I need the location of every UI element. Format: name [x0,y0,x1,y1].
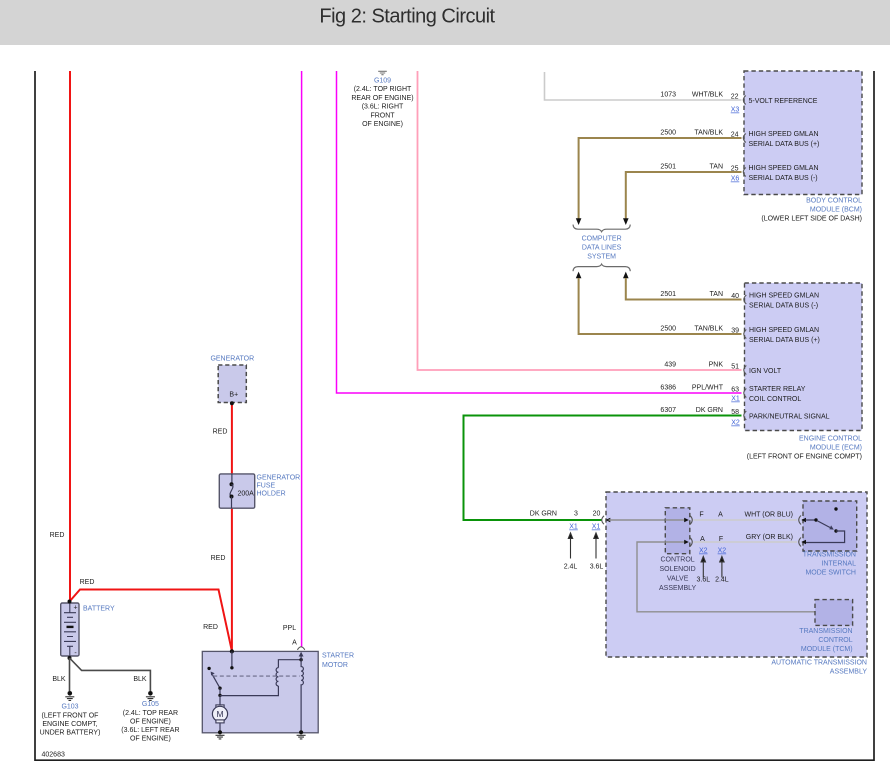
svg-text:GENERATOR: GENERATOR [210,356,254,363]
wire gray TCM riser [637,542,815,612]
svg-text:24: 24 [731,132,739,139]
svg-text:(3.6L: LEFT REAR: (3.6L: LEFT REAR [121,727,179,734]
ground G109 [351,71,413,128]
svg-text:200A: 200A [238,491,255,498]
svg-text:AUTOMATIC TRANSMISSION: AUTOMATIC TRANSMISSION [771,660,867,667]
wire BLK to G103 [69,658,71,691]
svg-text:BODY CONTROL: BODY CONTROL [806,198,862,205]
svg-text:B+: B+ [229,392,238,399]
pin 58 ECM [731,409,829,427]
svg-text:SYSTEM: SYSTEM [587,254,616,261]
svg-text:OF ENGINE): OF ENGINE) [130,735,171,742]
arrow up to A terminal [300,656,302,660]
svg-text:ASSEMBLY: ASSEMBLY [830,669,868,676]
svg-text:G105: G105 [142,701,159,708]
wire gray X1 to solenoid [609,519,666,521]
ground G105 [121,691,179,742]
generator box [210,356,254,403]
wire starter contact stub [231,651,233,667]
svg-text:58: 58 [731,409,739,416]
svg-text:TAN: TAN [710,291,723,298]
wire junction to pull-in coil [220,686,278,696]
svg-text:X2: X2 [731,420,740,427]
ground starter motor left [216,735,225,739]
svg-text:PNK: PNK [709,362,724,369]
svg-text:2.4L: 2.4L [564,564,578,571]
svg-text:INTERNAL: INTERNAL [821,561,856,568]
connector mode switch lower [799,538,806,547]
wire TAN/BLK 2500 lower [579,278,742,334]
svg-text:3.6L: 3.6L [590,564,604,571]
node mode switch common [814,518,817,521]
ground starter solenoid right [297,735,306,739]
svg-text:MODE SWITCH: MODE SWITCH [805,570,856,577]
svg-text:COIL CONTROL: COIL CONTROL [749,396,801,403]
node switch pivot [218,687,221,690]
node starter motor ground [218,730,222,734]
svg-text:(LOWER LEFT SIDE OF DASH): (LOWER LEFT SIDE OF DASH) [761,216,862,223]
svg-text:X1: X1 [731,396,740,403]
svg-text:BLK: BLK [133,676,147,683]
arrow up 2500 lower [576,272,582,279]
arrow down 2501 [623,218,629,225]
svg-text:HIGH SPEED GMLAN: HIGH SPEED GMLAN [749,327,819,334]
module BCM box [744,71,862,223]
wire RED generator to fuse [231,404,233,475]
svg-text:G109: G109 [374,78,391,85]
svg-text:PARK/NEUTRAL SIGNAL: PARK/NEUTRAL SIGNAL [749,414,830,421]
wire TAN/BLK 2500 upper [579,138,742,219]
svg-text:SERIAL DATA BUS (-): SERIAL DATA BUS (-) [749,175,818,182]
node battery positive [68,600,72,604]
module ECM box [745,283,863,461]
svg-text:FRONT: FRONT [370,112,395,119]
wire GRY (OR BLK) [694,541,798,543]
node generator B+ terminal [230,401,234,405]
svg-text:F: F [699,512,703,519]
svg-text:2501: 2501 [660,164,676,171]
svg-text:HIGH SPEED GMLAN: HIGH SPEED GMLAN [749,165,819,172]
wire WHT/BLK 1073 [545,72,742,100]
svg-text:3: 3 [574,511,578,518]
svg-text:GRY (OR BLK): GRY (OR BLK) [746,534,793,541]
wire pivot to lower node [219,688,221,695]
svg-text:1073: 1073 [660,92,676,99]
svg-text:39: 39 [731,328,739,335]
node mode switch unused [834,507,837,510]
battery [61,603,115,657]
svg-text:+: + [73,605,77,612]
svg-text:5-VOLT REFERENCE: 5-VOLT REFERENCE [749,98,818,105]
svg-text:X2: X2 [718,548,727,555]
svg-text:40: 40 [731,293,739,300]
pin 25 BCM [731,165,819,183]
svg-text:TAN: TAN [710,164,723,171]
svg-text:(LEFT FRONT OF ENGINE COMPT): (LEFT FRONT OF ENGINE COMPT) [747,454,862,461]
svg-text:22: 22 [731,94,739,101]
pin 51 ECM [731,364,782,376]
svg-text:TRANSMISSION: TRANSMISSION [799,628,852,635]
svg-text:(2.4L: TOP RIGHT: (2.4L: TOP RIGHT [354,86,412,93]
node solenoid A junction [299,658,302,661]
wire into switch upper [806,519,817,521]
svg-text:HIGH SPEED GMLAN: HIGH SPEED GMLAN [749,292,819,299]
svg-text:3.6L: 3.6L [696,577,710,584]
svg-text:TAN/BLK: TAN/BLK [694,130,723,137]
svg-text:X3: X3 [731,107,740,114]
svg-text:STARTER: STARTER [322,653,354,660]
svg-text:20: 20 [593,511,601,518]
svg-text:STARTER RELAY: STARTER RELAY [749,386,806,393]
svg-text:402683: 402683 [42,752,65,759]
pin 40 ECM [731,292,819,309]
svg-text:TAN/BLK: TAN/BLK [694,326,723,333]
control solenoid valve assembly box [659,508,697,592]
fuse 200A element [230,474,255,508]
wire coil top to A node [278,660,301,668]
svg-text:IGN VOLT: IGN VOLT [749,368,782,375]
generator fuse holder box [219,474,300,508]
svg-text:6386: 6386 [660,385,676,392]
node starter fixed contact [230,666,233,669]
dashed linkage line [213,675,299,677]
node starter open contact [207,667,210,670]
coil pull-in winding [276,668,278,686]
svg-text:MODULE (TCM): MODULE (TCM) [801,646,853,653]
pin 63 ECM [731,386,806,403]
wire PPL/WHT 6386 [337,71,742,393]
wire switch to gry out [803,531,845,543]
node starter B terminal [230,649,234,653]
svg-text:X1: X1 [569,524,578,531]
connector X1 inline [602,516,611,524]
svg-text:HOLDER: HOLDER [257,491,286,498]
svg-text:GENERATOR: GENERATOR [257,475,301,482]
svg-text:SOLENOID: SOLENOID [660,566,696,573]
wire TAN 2501 upper [626,172,742,219]
title bar [0,0,890,45]
svg-text:MOTOR: MOTOR [322,662,348,669]
svg-text:X6: X6 [731,176,740,183]
brace lower (overbrace) [573,264,630,271]
svg-text:UNDER BATTERY): UNDER BATTERY) [40,729,101,736]
svg-text:X1: X1 [592,524,601,531]
svg-text:WHT/BLK: WHT/BLK [692,92,723,99]
svg-text:2.4L: 2.4L [715,577,729,584]
switch arm mode [817,521,830,528]
svg-text:WHT (OR BLU): WHT (OR BLU) [745,512,793,519]
wire RED battery to starter [70,590,233,652]
svg-text:DATA LINES: DATA LINES [582,245,622,252]
arrow 2.4L [568,533,572,559]
svg-text:BATTERY: BATTERY [83,606,115,613]
arrow 3.6L solenoid [701,557,705,578]
svg-text:ASSEMBLY: ASSEMBLY [659,585,697,592]
pin 24 BCM [731,131,820,148]
svg-text:DK GRN: DK GRN [530,511,557,518]
wire WHT (OR BLU) [694,519,798,521]
wire DK GRN 6307 [464,416,742,521]
node battery negative [68,656,72,660]
svg-text:439: 439 [664,362,676,369]
svg-text:Fig 2: Starting Circuit: Fig 2: Starting Circuit [319,5,495,27]
pin 22 BCM [731,94,818,114]
ground G103 [40,691,101,736]
svg-text:A: A [718,512,723,519]
wire TAN 2501 lower [626,278,742,300]
arrow 3.6L [594,533,598,559]
svg-text:(3.6L: RIGHT: (3.6L: RIGHT [362,104,404,111]
svg-text:RED: RED [80,579,95,586]
starter motor box [202,651,354,732]
wire through solenoid lower [665,541,684,543]
wire PNK 439 [418,71,742,370]
svg-text:(2.4L: TOP REAR: (2.4L: TOP REAR [123,710,178,717]
svg-text:M: M [216,709,223,719]
svg-text:SERIAL DATA BUS (+): SERIAL DATA BUS (+) [749,337,820,344]
svg-text:A: A [292,640,297,647]
node motor top junction [218,694,221,697]
automatic transmission assembly box [606,492,867,676]
svg-text:VALVE: VALVE [667,576,689,583]
svg-text:HIGH SPEED GMLAN: HIGH SPEED GMLAN [749,131,819,138]
switch arm with arrow [213,675,221,688]
svg-text:FUSE: FUSE [257,483,276,490]
node solenoid ground [299,730,303,734]
svg-text:51: 51 [731,364,739,371]
svg-text:RED: RED [203,624,218,631]
brace upper (underbrace) [573,225,630,232]
svg-text:(LEFT FRONT OF: (LEFT FRONT OF [42,712,99,719]
svg-text:2500: 2500 [660,326,676,333]
svg-text:RED: RED [213,429,228,436]
wire RED battery feed vertical [69,71,71,601]
transmission control module box [799,600,852,653]
svg-text:2500: 2500 [660,130,676,137]
svg-text:SERIAL DATA BUS (+): SERIAL DATA BUS (+) [749,141,820,148]
svg-text:PPL/WHT: PPL/WHT [692,385,724,392]
svg-text:63: 63 [731,387,739,394]
svg-text:REAR OF ENGINE): REAR OF ENGINE) [351,95,413,102]
svg-text:DK GRN: DK GRN [696,407,723,414]
pin 39 ECM [731,327,820,344]
svg-text:COMPUTER: COMPUTER [582,236,622,243]
svg-text:MODULE (ECM): MODULE (ECM) [810,445,862,452]
svg-text:CONTROL: CONTROL [660,557,694,564]
svg-text:2501: 2501 [660,291,676,298]
wire through solenoid upper [665,519,684,521]
coil hold-in winding [301,660,303,733]
arrow up 2501 lower [623,272,629,279]
svg-text:PPL: PPL [283,625,296,632]
svg-text:OF ENGINE): OF ENGINE) [362,121,403,128]
svg-text:SERIAL DATA BUS (-): SERIAL DATA BUS (-) [749,302,818,309]
node mode switch selected [834,529,837,532]
arrow down 2500 [576,218,582,225]
svg-text:TRANSMISSION: TRANSMISSION [803,552,856,559]
svg-text:X2: X2 [699,548,708,555]
arrow 2.4L solenoid [720,557,724,578]
terminal A arc [297,647,304,650]
svg-text:25: 25 [731,166,739,173]
svg-text:ENGINE CONTROL: ENGINE CONTROL [799,436,862,443]
svg-text:G103: G103 [61,704,78,711]
svg-text:RED: RED [211,555,226,562]
wire PPL starter solenoid [301,71,303,647]
svg-text:MODULE (BCM): MODULE (BCM) [810,207,862,214]
svg-text:ENGINE COMPT,: ENGINE COMPT, [42,721,97,728]
motor M [212,695,227,732]
arrow out solenoid lower [684,540,689,544]
wire BLK to G105 [70,658,151,691]
connector mode switch upper [799,516,806,525]
svg-text:6307: 6307 [660,407,676,414]
svg-text:OF ENGINE): OF ENGINE) [130,718,171,725]
svg-text:RED: RED [50,532,65,539]
wire RED fuse to starter [231,508,233,651]
svg-text:CONTROL: CONTROL [818,637,852,644]
arrow out solenoid upper [684,518,689,522]
transmission internal mode switch box [803,501,857,577]
svg-text:BLK: BLK [52,676,66,683]
